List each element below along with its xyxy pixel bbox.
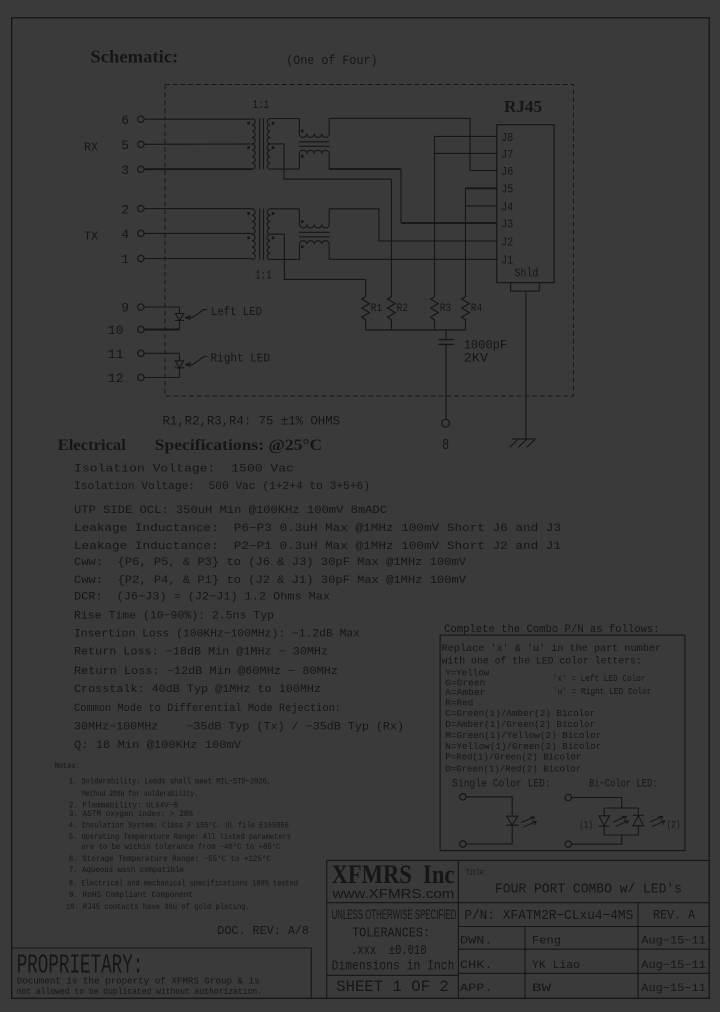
svg-text:REV. A: REV. A — [653, 908, 695, 923]
svg-text:UNLESS OTHERWISE SPECIFIED: UNLESS OTHERWISE SPECIFIED — [332, 907, 457, 922]
chassis ground — [510, 439, 536, 447]
title block table — [327, 860, 710, 998]
svg-text:Notes:: Notes: — [55, 761, 80, 771]
svg-text:UTP SIDE OCL: 350uH Min @100KH: UTP SIDE OCL: 350uH Min @100KHz 100mV 8m… — [74, 505, 387, 517]
wire pin10 to left LED cathode — [144, 329, 179, 331]
wire pin11 to right LED anode — [144, 352, 179, 354]
svg-text:Q: 18 Min @100KHz 100mV: Q: 18 Min @100KHz 100mV — [74, 740, 241, 752]
svg-text:3. ASTM oxygen index: > 28%: 3. ASTM oxygen index: > 28% — [69, 809, 194, 819]
pin 11 terminal circle — [138, 350, 144, 356]
svg-text:7. Aqueous wash compatible: 7. Aqueous wash compatible — [69, 865, 184, 875]
LED bicolor diode 1 (down) — [599, 808, 610, 835]
wire shield to chassis ground — [525, 291, 527, 439]
pin 3 terminal circle — [138, 166, 144, 172]
transformer T2 (TX) 1:1 — [252, 209, 270, 260]
T1 primary dot (pin3 side) — [247, 146, 250, 149]
svg-text:Single Color LED:: Single Color LED: — [452, 779, 551, 791]
svg-text:are to be within tolerance fro: are to be within tolerance from −40°C to… — [81, 842, 280, 852]
LED color legend box — [440, 635, 685, 851]
svg-text:11: 11 — [108, 347, 124, 362]
resistor R2 — [388, 297, 396, 331]
single LED top terminal — [460, 794, 466, 800]
svg-text:RX: RX — [84, 141, 98, 155]
LED bicolor diode 2 (up) — [633, 808, 644, 835]
pin 5 terminal circle — [138, 141, 144, 147]
svg-text:APP.: APP. — [460, 983, 493, 995]
bi-color bottom terminal — [565, 841, 571, 847]
svg-text:Aug−15−11: Aug−15−11 — [641, 960, 706, 972]
wire pin2 to T2 primary top — [144, 208, 252, 210]
transformer T1 (RX) 1:1 — [252, 118, 270, 169]
svg-text:Specifications: @25°C: Specifications: @25°C — [155, 437, 323, 454]
svg-text:Bi−Color LED:: Bi−Color LED: — [589, 779, 657, 791]
svg-text:2KV: 2KV — [464, 351, 489, 366]
svg-text:Isolation Voltage: 1500 Vac: Isolation Voltage: 1500 Vac — [74, 464, 294, 476]
T2 secondary dot bottom — [272, 237, 275, 240]
svg-text:30MHz−100MHz −35dB Typ (Tx): 30MHz−100MHz −35dB Typ (Tx) / −35dB Typ … — [74, 722, 404, 734]
svg-text:R4: R4 — [471, 303, 483, 315]
LED D2 Right — [175, 361, 185, 368]
wire J8 tie — [435, 135, 497, 137]
wire T1 secondary top to L1 — [270, 118, 299, 120]
svg-text:8: 8 — [442, 437, 449, 454]
proprietary box — [12, 948, 312, 998]
L1 dot bottom winding — [301, 155, 304, 158]
resistor R4 — [462, 297, 470, 331]
svg-text:5. Operating Temperature Range: 5. Operating Temperature Range: All list… — [69, 832, 291, 842]
svg-text:www.XFMRS.com: www.XFMRS.com — [331, 887, 454, 901]
bi-color bottom rail — [604, 834, 638, 836]
svg-text:Feng: Feng — [532, 936, 561, 948]
wire T2 secondary top to L2 — [270, 208, 299, 210]
svg-text:Insertion Loss (100KHz−100MHz): Insertion Loss (100KHz−100MHz): −1.2dB M… — [74, 629, 360, 641]
svg-text:R1,R2,R3,R4: 75 ±1% OHMS: R1,R2,R3,R4: 75 ±1% OHMS — [163, 414, 341, 428]
svg-text:N=Yellow(1)/Green(2) Bicolor: N=Yellow(1)/Green(2) Bicolor — [445, 741, 601, 752]
wire to single LED — [466, 797, 512, 816]
wire left LED anode drop — [179, 307, 181, 313]
L1 dot top winding — [301, 130, 304, 133]
svg-text:10: 10 — [108, 323, 124, 338]
svg-text:RJ45: RJ45 — [504, 97, 542, 116]
LED D1 Left — [175, 314, 185, 321]
svg-text:with one of the LED color lett: with one of the LED color letters: — [442, 656, 642, 668]
wire L1 bottom output run — [329, 168, 401, 170]
wire J4 tie — [466, 205, 497, 207]
svg-text:Title:: Title: — [466, 868, 487, 878]
wire left LED cathode drop — [179, 321, 181, 330]
pin 12 terminal circle — [138, 374, 144, 380]
pin 4 terminal circle — [138, 230, 144, 236]
svg-text:J6: J6 — [501, 165, 513, 179]
svg-text:1:1: 1:1 — [253, 99, 270, 112]
pin 1 terminal circle — [138, 255, 144, 261]
T1 primary dot (pin6 side) — [247, 122, 250, 125]
resistor R3 — [431, 297, 439, 331]
svg-text:Document is the property of XF: Document is the property of XFMRS Group … — [17, 976, 260, 987]
light arrows single LED — [522, 817, 537, 827]
svg-text:J4: J4 — [501, 200, 513, 214]
svg-text:Shld: Shld — [515, 268, 539, 281]
wire pin12 to right LED cathode — [144, 377, 179, 379]
wire J5 tie — [466, 187, 497, 189]
svg-text:.xxx ±0.010: .xxx ±0.010 — [351, 944, 426, 959]
wire vertical to J3 row — [400, 169, 402, 223]
svg-text:Right LED: Right LED — [211, 352, 271, 366]
T1 secondary dot bottom — [272, 146, 275, 149]
svg-text:Dimensions in Inch: Dimensions in Inch — [332, 959, 455, 975]
svg-text:not allowed to be duplicated w: not allowed to be duplicated without aut… — [17, 986, 262, 997]
svg-text:1. Solderability: Leads shall: 1. Solderability: Leads shall meet MIL−S… — [69, 776, 271, 786]
RJ45 connector J1 body — [497, 125, 554, 283]
wire resistor common rail — [366, 329, 466, 331]
svg-text:FOUR PORT COMBO w/ LED's: FOUR PORT COMBO w/ LED's — [495, 883, 682, 898]
wire down to resistor R2 — [390, 179, 392, 296]
svg-text:(1): (1) — [579, 819, 593, 831]
svg-text:Cww: {P2, P4, & P1} to (J2 &: Cww: {P2, P4, & P1} to (J2 & J1) 30pF Ma… — [74, 575, 466, 587]
svg-text:Isolation Voltage: 500 Vac (1: Isolation Voltage: 500 Vac (1+2+4 to 3+5… — [74, 481, 370, 493]
single LED bottom terminal — [460, 841, 466, 847]
wire L1 top output to J6 — [329, 118, 497, 170]
svg-text:Leakage Inductance: P2−P1 0.3: Leakage Inductance: P2−P1 0.3uH Max @1MH… — [74, 541, 561, 553]
svg-text:J7: J7 — [501, 148, 513, 162]
svg-text:SHEET 1 OF 2: SHEET 1 OF 2 — [336, 978, 449, 996]
svg-text:J5: J5 — [501, 183, 513, 197]
T2 secondary dot top — [272, 212, 275, 215]
svg-text:J1: J1 — [501, 254, 513, 268]
svg-text:P/N: XFATM2R−CLxu4−4MS: P/N: XFATM2R−CLxu4−4MS — [464, 908, 633, 924]
common-mode choke L1 (RX) — [299, 118, 330, 169]
svg-text:R2: R2 — [397, 303, 409, 315]
wire from bi-color pair — [572, 835, 622, 844]
svg-text:9: 9 — [121, 301, 129, 316]
wire to bi-color pair — [572, 798, 622, 809]
svg-text:9. RoHS Compliant Component: 9. RoHS Compliant Component — [69, 890, 193, 900]
svg-text:2: 2 — [121, 202, 129, 217]
wire to J3 — [401, 222, 497, 224]
svg-text:Cww: {P6, P5, & P3} to (J6 &: Cww: {P6, P5, & P3} to (J6 & J3) 30pF Ma… — [74, 557, 466, 569]
light arrows diode 2 — [650, 816, 665, 826]
svg-text:DOC. REV: A/8: DOC. REV: A/8 — [217, 924, 309, 938]
wire right LED anode drop — [179, 353, 181, 360]
svg-text:Leakage Inductance: P6−P3 0.3: Leakage Inductance: P6−P3 0.3uH Max @1MH… — [74, 523, 561, 535]
svg-text:D=Amber(1)/Green(2) Bicolor: D=Amber(1)/Green(2) Bicolor — [445, 719, 595, 730]
svg-text:Complete the Combo P/N as foll: Complete the Combo P/N as follows: — [444, 624, 659, 636]
svg-text:4: 4 — [121, 227, 129, 242]
light arrows diode 1 — [614, 816, 629, 826]
svg-text:DWN.: DWN. — [460, 936, 493, 948]
svg-text:10. RJ45 contacts have 30u of: 10. RJ45 contacts have 30u of gold plati… — [66, 902, 250, 912]
svg-text:R=Red: R=Red — [445, 698, 473, 709]
dashed module outline box — [165, 85, 574, 397]
svg-text:Left LED: Left LED — [211, 305, 262, 319]
svg-text:12: 12 — [108, 371, 124, 386]
svg-text:TOLERANCES:: TOLERANCES: — [352, 926, 430, 942]
pin 9 terminal circle — [138, 304, 144, 310]
svg-text:C=Green(1)/Amber(2) Bicolor: C=Green(1)/Amber(2) Bicolor — [445, 708, 595, 719]
svg-text:R3: R3 — [440, 303, 452, 315]
T2 primary dot (pin2 side) — [247, 212, 250, 215]
resistor R1 — [362, 297, 370, 331]
svg-text:Aug−15−11: Aug−15−11 — [641, 983, 706, 995]
svg-text:Electrical: Electrical — [58, 437, 127, 454]
wire pin1 to T2 primary bottom — [144, 258, 252, 260]
wire T2 secondary bottom to L2 — [270, 258, 299, 260]
svg-text:J3: J3 — [501, 217, 513, 231]
T1 secondary dot top — [272, 122, 275, 125]
svg-text:P=Red(1)/Green(2) Bicolor: P=Red(1)/Green(2) Bicolor — [445, 752, 581, 763]
bi-color top rail — [604, 807, 638, 809]
svg-text:5: 5 — [121, 138, 129, 153]
wire J5/J4 node down to R4 — [465, 188, 467, 296]
svg-text:Return Loss: −12dB Min @60MHz: Return Loss: −12dB Min @60MHz − 80MHz — [74, 666, 338, 678]
RJ45 shield tab — [511, 283, 540, 292]
wire pin4 to T2 primary center tap — [144, 232, 252, 234]
svg-text:'x' = Left LED Color: 'x' = Left LED Color — [553, 673, 646, 684]
svg-text:8. Electrical and mechanical s: 8. Electrical and mechanical specificati… — [69, 879, 298, 889]
wire pin3 to T1 primary bottom — [144, 168, 252, 170]
LED single color symbol — [506, 816, 518, 825]
svg-text:BW: BW — [532, 983, 552, 995]
L2 dot bottom winding — [301, 246, 304, 249]
svg-text:J8: J8 — [501, 131, 513, 145]
wire from single LED — [466, 825, 512, 844]
svg-text:R1: R1 — [371, 303, 383, 315]
wire pin5 to T1 primary center tap — [144, 143, 252, 145]
pin 6 terminal circle — [138, 116, 144, 122]
wire J7 tie — [435, 152, 497, 154]
L2 dot top winding — [301, 220, 304, 223]
svg-text:(2): (2) — [667, 819, 681, 831]
leader arrow to right LED — [185, 357, 207, 367]
svg-text:6. Storage Temperature Range:: 6. Storage Temperature Range: −55°C to +… — [69, 854, 271, 864]
svg-text:DCR: (J6−J3) = (J2−J1) 1.2 Oh: DCR: (J6−J3) = (J2−J1) 1.2 Ohms Max — [74, 592, 330, 604]
wire down to resistor R1 — [365, 279, 367, 296]
svg-text:Return Loss: −18dB Min @1MHz −: Return Loss: −18dB Min @1MHz − 30MHz — [74, 647, 328, 659]
svg-text:A=Amber: A=Amber — [445, 687, 485, 698]
bi-color top terminal — [565, 794, 571, 800]
wire T2 center tap run to R1 — [270, 234, 365, 279]
T2 primary dot (pin1 side) — [247, 237, 250, 240]
svg-text:Replace 'x' & 'u' in the part: Replace 'x' & 'u' in the part number — [442, 643, 661, 655]
svg-text:YK Liao: YK Liao — [532, 960, 580, 972]
wire T1 secondary bottom to L1 — [270, 168, 299, 170]
svg-text:Common Mode to Differential Mo: Common Mode to Differential Mode Rejecti… — [74, 703, 341, 715]
svg-text:(One of Four): (One of Four) — [286, 54, 377, 68]
svg-text:3: 3 — [121, 163, 129, 178]
node 8 terminal circle — [442, 419, 450, 427]
svg-text:Schematic:: Schematic: — [90, 47, 178, 67]
wire pin9 to left LED anode — [144, 306, 179, 308]
svg-text:1:1: 1:1 — [255, 269, 272, 282]
leader arrow to left LED — [185, 310, 207, 320]
svg-text:M=Green(1)/Yellow(2) Bicolor: M=Green(1)/Yellow(2) Bicolor — [445, 730, 601, 741]
svg-text:6: 6 — [121, 113, 129, 128]
wire T1 center tap run to R2 — [270, 144, 391, 179]
svg-text:J2: J2 — [501, 235, 513, 249]
wire right LED cathode drop — [179, 368, 181, 378]
wire J8/J7 node down to R3 — [434, 136, 436, 296]
svg-text:Rise Time (10−90%): 2.5ns Typ: Rise Time (10−90%): 2.5ns Typ — [74, 611, 274, 623]
svg-text:Method 208H for solderability.: Method 208H for solderability. — [82, 789, 198, 799]
svg-text:XFMRS Inc: XFMRS Inc — [332, 859, 455, 889]
wire L2 top output to J2 — [329, 209, 497, 241]
svg-text:Aug−15−11: Aug−15−11 — [641, 936, 706, 948]
capacitor C1 1000pF 2KV — [438, 330, 453, 419]
svg-text:'u' = Right LED Color: 'u' = Right LED Color — [553, 686, 652, 697]
svg-text:O=Green(1)/Red(2) Bicolor: O=Green(1)/Red(2) Bicolor — [445, 763, 581, 774]
svg-text:CHK.: CHK. — [460, 960, 493, 972]
svg-text:Crosstalk: 40dB Typ @1MHz to 1: Crosstalk: 40dB Typ @1MHz to 100MHz — [74, 684, 321, 696]
pin 10 terminal circle — [138, 326, 144, 332]
wire pin6 to T1 primary top — [144, 118, 252, 120]
wire L2 bottom output to J1 — [329, 258, 497, 260]
svg-text:4. Insulation System: Class F: 4. Insulation System: Class F 155°C. UL … — [69, 820, 289, 830]
svg-text:1: 1 — [121, 252, 129, 267]
common-mode choke L2 (TX) — [299, 209, 330, 260]
svg-text:TX: TX — [84, 230, 98, 244]
pin 2 terminal circle — [138, 205, 144, 211]
